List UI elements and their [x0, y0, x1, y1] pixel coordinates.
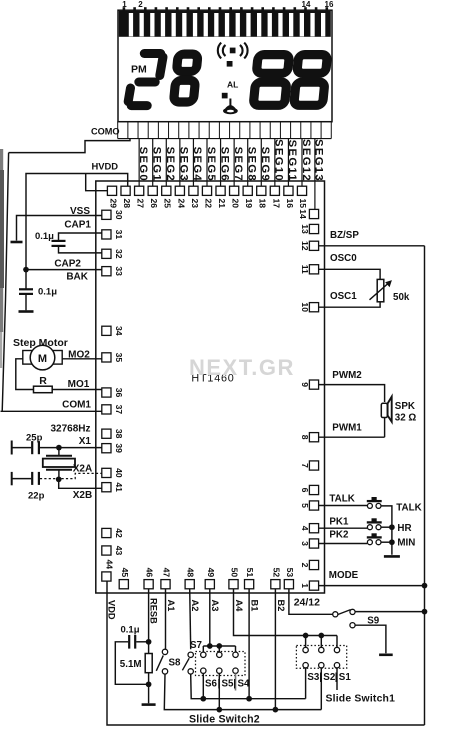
- wire SEG13: [314, 139, 316, 209]
- pin 40 box (left): [102, 468, 111, 477]
- svg-text:VDD: VDD: [107, 600, 117, 620]
- wire A2 pin48 to S7: [190, 589, 191, 649]
- svg-text:52: 52: [271, 568, 281, 578]
- svg-text:22: 22: [203, 199, 213, 209]
- pin 49 box (bottom): [205, 580, 214, 589]
- pin 6 box (right): [309, 485, 318, 494]
- svg-text:|: |: [218, 679, 221, 690]
- pin 34 box (left): [102, 326, 111, 335]
- wire S1 stub: [336, 668, 338, 690]
- pin 46 box (bottom): [144, 580, 153, 589]
- node MIN junction: [389, 539, 395, 545]
- node B2 junction: [273, 707, 279, 713]
- node S5 top junction: [216, 643, 222, 649]
- pin 53 box (bottom): [284, 580, 293, 589]
- pin 24 box (top row): [175, 186, 184, 195]
- wire RESB pin46: [148, 589, 150, 704]
- wire SEG11: [287, 139, 289, 187]
- pin 42 box (left): [102, 528, 111, 537]
- wire COM1 pin37 to left rail: [1, 410, 102, 412]
- crystal Y1 32768Hz: [58, 448, 60, 456]
- pin 17 box (top row): [270, 186, 279, 195]
- svg-text:38: 38: [114, 429, 124, 439]
- svg-text:SEG11: SEG11: [286, 140, 298, 182]
- wire A1 pin47 to S8: [165, 589, 167, 649]
- svg-text:24: 24: [176, 199, 186, 209]
- wire BZ/SP pin12 to right rail: [319, 245, 425, 247]
- svg-text:X1: X1: [79, 436, 92, 447]
- wire SEG4: [192, 139, 194, 187]
- pin 28 box (top row): [121, 186, 130, 195]
- wire PWM1 pin8 to speaker: [319, 436, 385, 438]
- ground (VSS): [11, 241, 23, 244]
- pin 12 box (right): [309, 241, 318, 250]
- svg-text:AL: AL: [227, 80, 238, 90]
- svg-text:S4: S4: [238, 679, 251, 690]
- svg-text:25: 25: [163, 199, 173, 209]
- wire S3 bottom (rail1 end): [305, 668, 307, 699]
- svg-text:|: |: [335, 672, 338, 683]
- svg-text:44: 44: [104, 560, 114, 570]
- pin 5 box (right): [309, 501, 318, 510]
- svg-text:BAK: BAK: [66, 272, 88, 283]
- pin 47 box (bottom): [161, 580, 170, 589]
- svg-text:MIN: MIN: [397, 538, 415, 549]
- slide switch 1 box: [296, 646, 346, 669]
- svg-text:Slide Switch1: Slide Switch1: [326, 694, 396, 705]
- svg-text:14: 14: [302, 0, 311, 9]
- svg-text:SEG7: SEG7: [232, 147, 244, 182]
- pin 18 box (top row): [257, 186, 266, 195]
- pin 48 box (bottom): [185, 580, 194, 589]
- wire B2 pin52 to rail2: [274, 589, 276, 710]
- svg-text:SEG4: SEG4: [191, 147, 203, 182]
- svg-text:1: 1: [300, 583, 310, 588]
- wire SEG6: [220, 139, 222, 187]
- LCD digit 8 (second): [168, 54, 203, 102]
- wire A4 pin50 to slide switch 1: [234, 589, 338, 636]
- svg-text:45: 45: [120, 568, 130, 578]
- svg-text:COMO: COMO: [91, 127, 120, 137]
- svg-text:5.1M: 5.1M: [120, 659, 142, 670]
- svg-text:PK1: PK1: [329, 517, 349, 528]
- svg-text:32768Hz: 32768Hz: [51, 424, 91, 435]
- svg-text:R: R: [39, 375, 47, 387]
- pin 20 box (top row): [230, 186, 239, 195]
- LCD colon dots: [227, 61, 233, 67]
- wire 24/12 to right rail: [355, 611, 424, 613]
- svg-text:5: 5: [300, 503, 310, 508]
- LCD digit 2: [128, 54, 163, 106]
- switch S1 contacts: [334, 647, 339, 652]
- pin 26 box (top row): [148, 186, 157, 195]
- svg-text:23: 23: [190, 199, 200, 209]
- svg-text:11: 11: [300, 265, 310, 274]
- wire SEG10: [274, 139, 276, 187]
- IC U1 HT1460 body: [96, 181, 325, 593]
- svg-text:SEG0: SEG0: [137, 147, 149, 182]
- wire A3 pin49 to slide switch 2: [209, 589, 211, 646]
- pin 44 box (left): [102, 572, 111, 581]
- svg-text:PWM1: PWM1: [332, 423, 362, 434]
- svg-text:0.1μ: 0.1μ: [35, 231, 54, 242]
- pin 7 box (right): [309, 461, 318, 470]
- wire S8 bottom to rail2: [164, 674, 321, 710]
- svg-text:PM: PM: [131, 64, 147, 76]
- switch S4 contacts: [233, 652, 238, 657]
- switch TALK pushbutton: [367, 503, 372, 508]
- svg-text:0.1μ: 0.1μ: [121, 625, 140, 636]
- wire S4 stub: [235, 673, 237, 690]
- svg-text:VSS: VSS: [70, 206, 90, 217]
- svg-text:0.1μ: 0.1μ: [38, 287, 57, 298]
- wire SEG12: [301, 139, 303, 187]
- node S5 junction: [216, 707, 222, 713]
- svg-text:22p: 22p: [28, 491, 45, 502]
- switch S10 24/12 slide: [333, 612, 338, 617]
- wire SEG8: [247, 139, 249, 187]
- slide switch 2 box: [196, 652, 246, 676]
- svg-text:S8: S8: [169, 658, 182, 669]
- svg-text:16: 16: [325, 0, 334, 9]
- svg-text:Slide Switch2: Slide Switch2: [189, 714, 260, 726]
- wire X2B to pin41: [59, 479, 102, 488]
- scan artifact left edge: [0, 149, 3, 332]
- svg-text:NEXT.GR: NEXT.GR: [189, 355, 295, 380]
- svg-text:HVDD: HVDD: [92, 160, 119, 171]
- svg-text:A2: A2: [190, 600, 200, 612]
- pin 8 box (right): [309, 433, 318, 442]
- pin 23 box (top row): [189, 186, 198, 195]
- svg-text:SEG9: SEG9: [259, 147, 271, 182]
- LCD digit 8 (fourth): [289, 55, 333, 106]
- pin 4 box (right): [309, 524, 318, 533]
- resistor R3 5.1M: [145, 654, 152, 673]
- svg-text:25p: 25p: [26, 433, 43, 444]
- net HVDD wire to pins 28 29: [26, 174, 128, 271]
- svg-text:MO1: MO1: [68, 379, 90, 390]
- svg-text:CAP1: CAP1: [64, 220, 91, 231]
- svg-text:S1: S1: [339, 672, 352, 683]
- wire S6 bottom to rail1: [202, 673, 204, 698]
- svg-text:29: 29: [108, 199, 118, 209]
- node RESB junction bottom: [146, 681, 152, 687]
- pin 21 box (top row): [216, 186, 225, 195]
- svg-text:2: 2: [138, 0, 143, 9]
- resistor R2 50k trimmer: [377, 279, 384, 301]
- pin 37 box (left): [102, 405, 111, 414]
- svg-text:40: 40: [114, 468, 124, 478]
- svg-text:9: 9: [300, 382, 310, 387]
- svg-text:SEG10: SEG10: [273, 139, 285, 182]
- slide switch 2 top bus: [203, 645, 235, 647]
- svg-text:24/12: 24/12: [294, 597, 320, 609]
- wire OSC0 pin11: [319, 269, 380, 279]
- svg-text:13: 13: [300, 224, 310, 234]
- pin 1 box (right): [309, 581, 318, 590]
- svg-text:M: M: [38, 353, 47, 365]
- svg-text:16: 16: [285, 199, 295, 209]
- ground (backup cap): [19, 310, 34, 313]
- svg-text:20: 20: [231, 199, 241, 209]
- svg-text:|: |: [319, 672, 322, 683]
- pin 39 box (left): [102, 444, 111, 453]
- svg-text:MODE: MODE: [329, 570, 359, 581]
- pin 10 box (right): [309, 303, 318, 312]
- pin 45 box (bottom): [119, 580, 128, 589]
- pin 15 box (top row): [297, 186, 306, 195]
- wire SEG2: [165, 139, 167, 187]
- capacitor C1 0.1u (CAP1-CAP2): [59, 233, 102, 240]
- svg-text:17: 17: [271, 199, 281, 209]
- svg-text:SEG1: SEG1: [151, 147, 163, 182]
- wire S2 bottom (rail2 end): [320, 668, 322, 710]
- wire PK2 pin3: [319, 543, 367, 545]
- switch S3 contacts: [303, 647, 308, 652]
- svg-text:COM1: COM1: [62, 400, 91, 411]
- svg-text:37: 37: [114, 405, 124, 415]
- pin 13 box (right): [309, 224, 318, 233]
- svg-text:S6: S6: [205, 679, 218, 690]
- LCD digit 8 (third): [248, 55, 295, 106]
- pin 19 box (top row): [243, 186, 252, 195]
- svg-text:21: 21: [217, 199, 227, 209]
- wire SEG3: [179, 139, 181, 187]
- svg-text:2: 2: [300, 563, 310, 568]
- wire MO2 pin35: [62, 358, 102, 360]
- svg-text:50: 50: [230, 568, 240, 578]
- pin 11 box (right): [309, 265, 318, 274]
- wire VDD pin44 down and bottom frame: [107, 581, 425, 725]
- LCD bottom connector strip: [118, 138, 332, 140]
- switch S6 contacts: [201, 652, 206, 657]
- svg-text:47: 47: [162, 568, 172, 578]
- wire PK1 pin4: [319, 527, 367, 529]
- svg-text:SEG5: SEG5: [205, 147, 217, 182]
- svg-text:33: 33: [114, 266, 124, 276]
- svg-text:32 Ω: 32 Ω: [395, 413, 417, 424]
- svg-text:OSC0: OSC0: [330, 253, 357, 264]
- wire PWM2 pin9 to speaker: [319, 385, 385, 402]
- pin 3 box (right): [309, 539, 318, 548]
- svg-text:X2A: X2A: [73, 464, 92, 475]
- capacitor C4 22p: [11, 472, 13, 485]
- svg-text:8: 8: [300, 435, 310, 440]
- switch S5 contacts: [217, 652, 222, 657]
- pin 52 box (bottom): [271, 580, 280, 589]
- svg-text:53: 53: [285, 568, 295, 578]
- svg-text:3: 3: [300, 541, 310, 546]
- node X1 junction: [56, 445, 62, 451]
- pin 22 box (top row): [202, 186, 211, 195]
- svg-text:28: 28: [122, 199, 132, 209]
- net VSS wire pin30 and ground: [17, 216, 102, 241]
- wire S7 bottom to rail1: [191, 674, 306, 699]
- svg-text:12: 12: [300, 241, 310, 251]
- pin 33 box (left): [102, 267, 111, 276]
- svg-text:A1: A1: [166, 600, 176, 612]
- svg-text:SEG3: SEG3: [178, 147, 190, 182]
- svg-text:36: 36: [114, 388, 124, 398]
- capacitor C2 0.1u (backup): [25, 270, 27, 289]
- svg-text:49: 49: [206, 568, 216, 578]
- wire TALK pin5: [319, 505, 367, 507]
- svg-text:PWM2: PWM2: [332, 370, 362, 381]
- svg-text:26: 26: [149, 199, 159, 209]
- svg-text:43: 43: [114, 546, 124, 556]
- svg-text:TALK: TALK: [329, 494, 354, 505]
- net BAK wire pin33: [26, 269, 102, 271]
- resistor R1 R: [34, 386, 53, 393]
- svg-text:50k: 50k: [393, 292, 410, 303]
- pin 50 box (bottom): [229, 580, 238, 589]
- svg-text:MO2: MO2: [68, 350, 90, 361]
- svg-text:35: 35: [114, 353, 124, 363]
- svg-text:SEG2: SEG2: [164, 147, 176, 182]
- svg-text:30: 30: [114, 210, 124, 220]
- wire TALK to button rail: [381, 506, 392, 555]
- wire MO1 pin36: [52, 389, 102, 391]
- pin 2 box (right): [309, 560, 318, 569]
- pin 16 box (top row): [284, 186, 293, 195]
- svg-text:B2: B2: [276, 600, 286, 612]
- svg-text:6: 6: [300, 488, 310, 493]
- svg-text:14: 14: [298, 209, 308, 219]
- svg-text:B1: B1: [250, 600, 260, 612]
- svg-text:A3: A3: [210, 600, 220, 612]
- svg-text:7: 7: [300, 463, 310, 468]
- pin 30 box (left): [102, 210, 111, 219]
- svg-text:OSC1: OSC1: [330, 291, 357, 302]
- svg-text:1: 1: [122, 0, 127, 9]
- wire pin53 to 24/12 switch: [289, 589, 333, 614]
- svg-text:PK2: PK2: [329, 530, 349, 541]
- pin 32 box (left): [102, 249, 111, 258]
- svg-text:S3: S3: [307, 672, 320, 683]
- switch S2 contacts: [319, 647, 324, 652]
- node S6 junction: [200, 696, 206, 702]
- svg-text:27: 27: [136, 199, 146, 209]
- node S3 top junction: [303, 633, 309, 639]
- node B1 junction: [246, 696, 252, 702]
- pin 9 box (right): [309, 380, 318, 389]
- svg-text:46: 46: [145, 568, 155, 578]
- svg-text:15: 15: [298, 199, 308, 209]
- pin 14 box (right): [309, 209, 318, 218]
- node X2B junction: [56, 476, 62, 482]
- pin 43 box (left): [102, 546, 111, 555]
- svg-text:42: 42: [114, 528, 124, 538]
- node RESB junction top: [146, 639, 152, 645]
- wire S5 bottom to rail2: [218, 673, 220, 709]
- svg-text:A4: A4: [234, 600, 244, 613]
- switch S8: [162, 649, 167, 654]
- pin 38 box (left): [102, 429, 111, 438]
- switch HR pushbutton: [367, 525, 372, 530]
- svg-text:BZ/SP: BZ/SP: [330, 230, 359, 241]
- node 24/12-rail junction: [422, 609, 428, 615]
- pin 36 box (left): [102, 388, 111, 397]
- svg-text:S7: S7: [190, 640, 203, 651]
- svg-text:RESB: RESB: [149, 598, 159, 624]
- LCD alarm radio icon: [218, 43, 248, 59]
- pin 29 box (top row): [107, 186, 116, 195]
- svg-text:32: 32: [114, 249, 124, 259]
- node HR junction: [389, 524, 395, 530]
- pin 25 box (top row): [162, 186, 171, 195]
- pin 51 box (bottom): [245, 580, 254, 589]
- wire B1 pin51 to rail1: [248, 589, 250, 699]
- svg-text:CAP2: CAP2: [54, 259, 81, 270]
- wire SEG0: [138, 139, 140, 187]
- svg-text:18: 18: [258, 199, 268, 209]
- svg-text:10: 10: [300, 302, 310, 312]
- svg-text:19: 19: [244, 199, 254, 209]
- svg-text:48: 48: [186, 568, 196, 578]
- svg-text:S5: S5: [222, 679, 235, 690]
- node BAK junction: [23, 267, 29, 273]
- switch MIN pushbutton: [367, 540, 372, 545]
- svg-text:41: 41: [114, 482, 124, 492]
- wire OSC1 pin10: [319, 302, 380, 307]
- svg-text:SEG13: SEG13: [313, 139, 325, 182]
- svg-text:|: |: [233, 679, 236, 690]
- svg-text:34: 34: [114, 326, 124, 336]
- wire SEG7: [233, 139, 235, 187]
- svg-text:X2B: X2B: [73, 490, 92, 501]
- node S2 top junction: [318, 633, 324, 639]
- svg-text:SEG8: SEG8: [246, 147, 258, 182]
- pin 31 box (left): [102, 230, 111, 239]
- pin 41 box (left): [102, 483, 111, 492]
- svg-text:SEG6: SEG6: [218, 147, 230, 182]
- node COM0 left rail (down left edge): [2, 153, 8, 412]
- speaker SPK 32ohm: [384, 417, 386, 437]
- wire SEG9: [260, 139, 262, 187]
- net COM0 wire from LCD to left rail: [9, 139, 130, 153]
- svg-text:SPK: SPK: [395, 401, 415, 412]
- wire SEG1: [152, 139, 154, 187]
- pin 35 box (left): [102, 353, 111, 362]
- ground (S9): [379, 653, 393, 656]
- svg-text:31: 31: [114, 230, 124, 240]
- node A3 junction: [207, 643, 213, 649]
- node MODE-rail junction: [422, 583, 428, 589]
- svg-text:4: 4: [300, 526, 310, 531]
- wire SEG5: [206, 139, 208, 187]
- wire S9 to ground: [355, 625, 386, 653]
- right rail (BZ/SP - MODE - 24/12 - VDD): [424, 246, 426, 725]
- LCD display module: [118, 7, 332, 122]
- ground (RESB): [142, 703, 156, 706]
- wire X2A dotted to pin40: [40, 478, 56, 480]
- svg-text:HR: HR: [397, 523, 411, 534]
- wire motor left to resistor R: [16, 359, 34, 390]
- svg-text:SEG12: SEG12: [300, 139, 312, 182]
- LCD bell icon: [229, 99, 231, 106]
- pin 27 box (top row): [135, 186, 144, 195]
- svg-text:51: 51: [245, 568, 255, 578]
- ground (buttons): [384, 555, 400, 558]
- svg-text:39: 39: [114, 443, 124, 453]
- svg-text:TALK: TALK: [396, 503, 421, 514]
- wire MODE pin1 to right rail: [319, 585, 425, 587]
